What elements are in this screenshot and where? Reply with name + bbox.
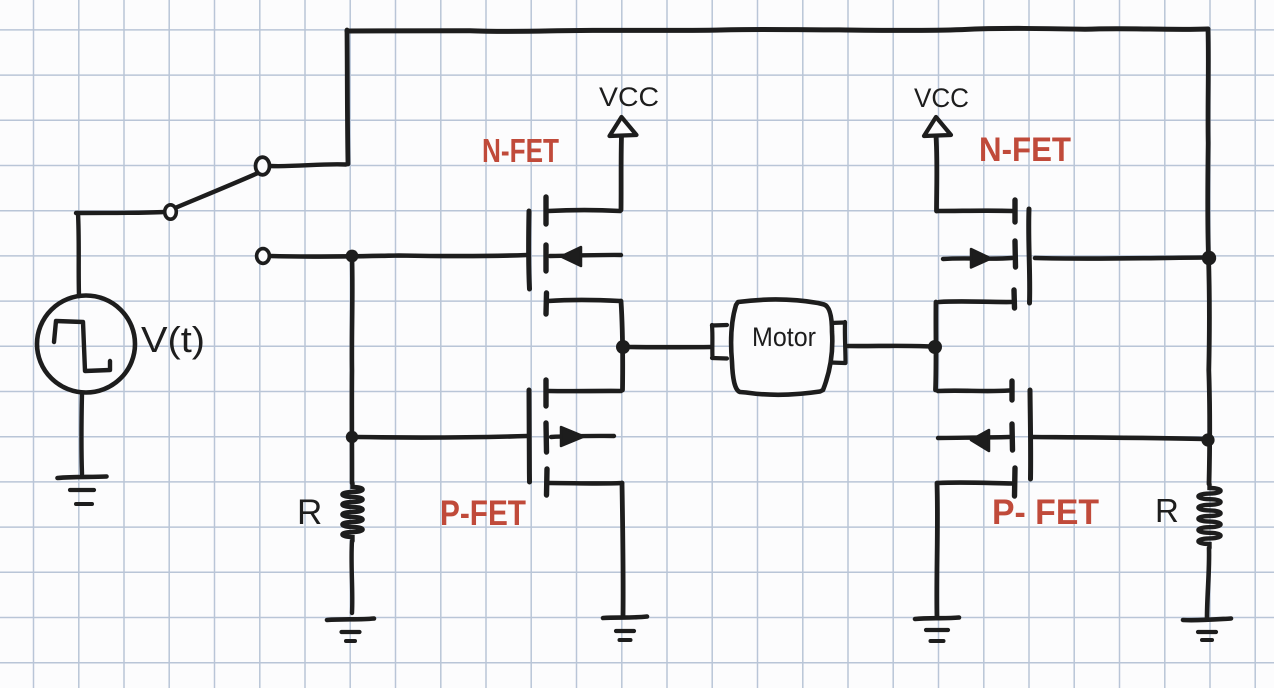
svg-text:VCC: VCC [599,82,659,112]
svg-text:R: R [1155,492,1179,529]
svg-text:N-FET: N-FET [482,132,559,169]
svg-text:R: R [297,493,322,532]
svg-text:VCC: VCC [914,83,969,113]
svg-text:P- FET: P- FET [992,493,1099,532]
svg-text:P-FET: P-FET [440,494,526,533]
svg-text:Motor: Motor [752,322,816,352]
svg-text:V(t): V(t) [141,319,205,360]
svg-text:N-FET: N-FET [979,131,1071,169]
